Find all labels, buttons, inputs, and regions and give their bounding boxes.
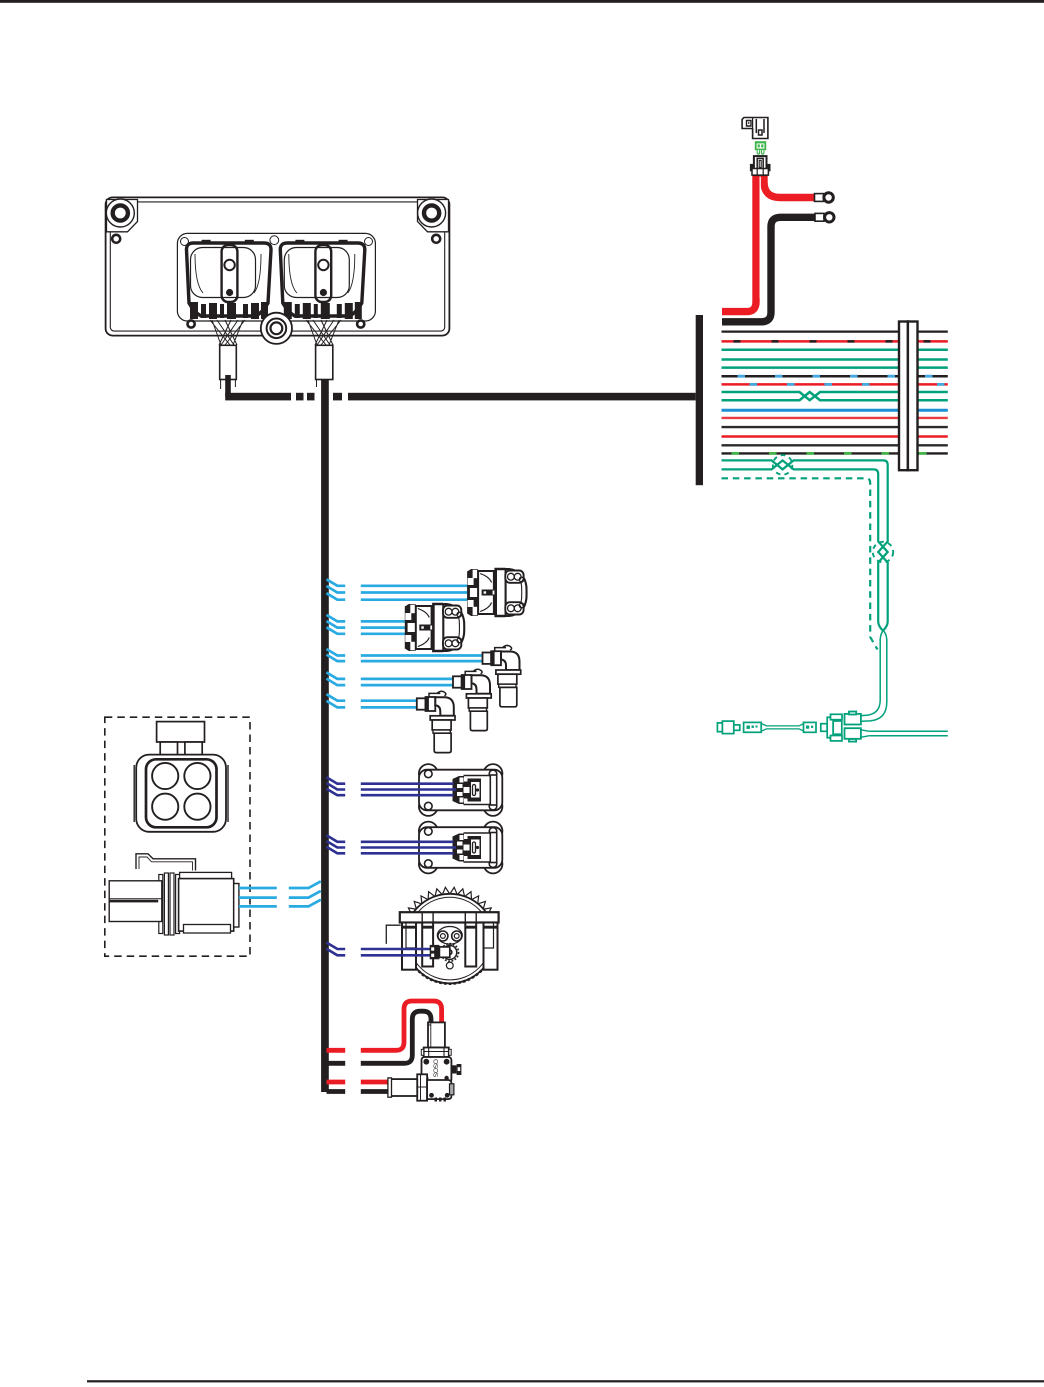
ECM mount bracket top-right xyxy=(418,200,449,232)
fuel pump lower clamp xyxy=(417,1074,427,1100)
ECM connector block B terminal comb xyxy=(284,302,362,319)
splice ring on teal vertical xyxy=(873,542,893,562)
fuel pump top cylinder xyxy=(428,1022,445,1047)
sensor branch wires light blue group 4 xyxy=(327,672,454,685)
side-view connector nose xyxy=(234,884,239,928)
teal dashed wire xyxy=(722,478,878,649)
bulkhead connector bar xyxy=(899,322,918,471)
teal plug lower xyxy=(845,728,870,741)
ECM connector block B xyxy=(280,243,365,316)
ECM connector plate xyxy=(177,233,375,321)
4-pin connector sockets xyxy=(152,763,210,820)
crank sensor 3 xyxy=(417,691,455,752)
ECM screw right xyxy=(432,235,440,243)
fuel pump clamp xyxy=(424,1048,449,1058)
wire red 2 xyxy=(722,417,948,419)
ECM grommet xyxy=(261,313,292,344)
side-view connector body xyxy=(180,872,232,878)
ECM mount hole top-left xyxy=(106,199,134,227)
wire teal 2 xyxy=(722,358,948,361)
ECM mount bracket top-left xyxy=(107,200,138,232)
ECM wire bundle A hatched xyxy=(210,320,245,345)
ring terminal on black lead xyxy=(815,213,824,221)
ECM mount hole top-right xyxy=(418,199,446,227)
wire black 3 xyxy=(722,444,948,446)
wire teal 4 with splice crossover xyxy=(722,392,948,400)
crank sensor 2 xyxy=(453,669,491,730)
fuel pump lower body xyxy=(427,1080,451,1099)
fuel pump feed wire red (upper pair) xyxy=(327,1001,442,1050)
teal tail wire to right xyxy=(869,731,948,735)
sensor branch wires light blue group 5 xyxy=(327,694,418,707)
fuel pump side connector comb xyxy=(451,1065,456,1073)
wire black/green stripe xyxy=(722,452,948,454)
coil branch wires navy group 1 xyxy=(327,777,457,795)
ECM wire bundle B hatched xyxy=(306,320,341,345)
ignition coil plate 2 xyxy=(419,822,503,874)
fuse holder lower xyxy=(754,156,767,175)
fuel pump feed wire red (lower pair) xyxy=(327,1080,392,1085)
fuse (green mini blade) xyxy=(755,141,766,150)
wire black/blue stripe xyxy=(722,375,948,378)
wire teal 1 xyxy=(722,349,948,352)
teal wire B xyxy=(722,460,888,630)
battery negative cable (black) xyxy=(722,217,817,321)
battery positive cable (red) from fuse xyxy=(722,171,756,312)
throttle bracket step line xyxy=(386,925,400,944)
side-view connector ribs xyxy=(159,873,180,935)
throttle branch wires navy xyxy=(327,943,442,956)
ECM connector block A terminal comb xyxy=(190,302,268,319)
splice ring on teal pair xyxy=(773,455,793,475)
accessory dashed box xyxy=(105,717,250,956)
svg-text:OSOS: OSOS xyxy=(432,1059,439,1078)
oxygen sensor jumper lead xyxy=(744,722,816,732)
throttle body legs xyxy=(402,923,498,970)
ECM screw left xyxy=(112,235,120,243)
sensor branch wires light blue group 2 xyxy=(327,615,406,634)
teal sensor harness pair with splice xyxy=(722,460,888,630)
main harness trunk vertical xyxy=(321,380,329,1093)
page top rule xyxy=(0,0,1044,3)
sensor branch wires light blue group 3 xyxy=(327,649,484,661)
side-view connector lever xyxy=(136,854,196,871)
harness bus bar right xyxy=(696,315,703,485)
throttle connector plug xyxy=(430,945,440,959)
ring terminal on red lead xyxy=(815,194,824,202)
ECM bottom screw left xyxy=(188,320,195,327)
wire red 3 xyxy=(722,435,948,437)
wire black 2 xyxy=(722,426,948,428)
oxygen sensor plug 1 xyxy=(717,721,739,734)
teal wire A xyxy=(722,460,888,630)
wire teal 3 xyxy=(722,366,948,369)
ECM bottom screw right xyxy=(357,320,364,327)
4-pin connector body xyxy=(133,765,135,822)
wire black xyxy=(722,330,948,332)
harness main line to junction (with break dashes) xyxy=(225,393,291,401)
throttle cam detail xyxy=(437,927,462,969)
teal single lead (outline wire) xyxy=(862,631,887,722)
red lead to ring terminal xyxy=(764,171,817,198)
ECM harness sleeve A xyxy=(220,345,237,379)
wire blue xyxy=(722,409,948,412)
coil branch wires navy group 2 xyxy=(327,835,457,853)
sensor branch wires light blue group 1 xyxy=(327,579,468,599)
wire teal 5 with splice crossover xyxy=(722,392,948,400)
harness stub from sleeve A xyxy=(225,375,231,397)
fuel pump feed wire black (upper pair) xyxy=(327,1011,432,1063)
side connector wires light blue xyxy=(239,881,321,906)
MAP/TPS sensor 2 xyxy=(405,604,464,651)
crank sensor 1 xyxy=(483,645,521,706)
4-pin connector latch xyxy=(157,722,205,742)
wire red/black stripe xyxy=(722,340,948,343)
fuse holder cap xyxy=(742,118,768,139)
red wire core line xyxy=(759,177,761,298)
fuel pump inlet cylinder xyxy=(390,1079,417,1096)
ECM harness sleeve B xyxy=(316,345,333,379)
ECM module body xyxy=(106,197,450,335)
fuel pump feed wire black (lower pair) xyxy=(327,1089,392,1094)
wire red/blue stripe xyxy=(722,383,948,386)
MAP/TPS sensor 1 xyxy=(467,569,526,616)
ignition coil plate 1 xyxy=(419,764,503,816)
fuel pump body xyxy=(422,1057,452,1083)
harness wire bundle rows xyxy=(722,332,948,454)
ECM connector block A xyxy=(186,243,271,316)
throttle body mount bar xyxy=(400,912,499,922)
side-view connector barrel xyxy=(109,881,162,922)
teal plug upper xyxy=(845,712,861,725)
harness Y holder xyxy=(821,714,842,741)
throttle body gear xyxy=(404,887,496,983)
page bottom rule xyxy=(87,1380,1044,1382)
